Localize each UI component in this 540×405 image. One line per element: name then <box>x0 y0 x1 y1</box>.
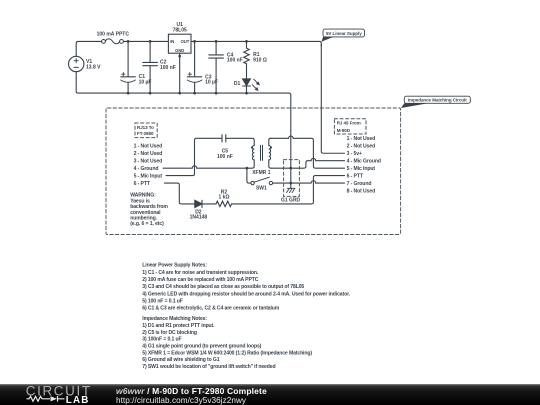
capacitor C5 <box>222 135 226 142</box>
label C5 <box>217 148 233 159</box>
LED D1 <box>243 79 260 93</box>
svg-text:1 - Not Used: 1 - Not Used <box>134 144 163 150</box>
svg-text:LAB: LAB <box>66 395 90 405</box>
svg-text:5) XFMR 1 = Edcor WSM 1/4 W 60: 5) XFMR 1 = Edcor WSM 1/4 W 600:2400 (1:… <box>142 350 312 356</box>
label C2 <box>160 60 176 71</box>
label U1 <box>170 22 190 53</box>
svg-text:2 - Not Used: 2 - Not Used <box>134 151 163 157</box>
RJ45 pin list text <box>347 136 381 194</box>
svg-text:3 - Not Used: 3 - Not Used <box>134 159 163 165</box>
wire RJ13 ground to transformer (with hop) <box>163 166 254 168</box>
junction U1 gnd pin <box>178 55 181 58</box>
wire D2 to R2 <box>202 203 216 205</box>
RJ13 To FT-2980 dashed label box <box>135 123 157 138</box>
capacitor C3 <box>187 41 202 93</box>
label fuse <box>97 31 130 37</box>
warning text <box>130 193 168 228</box>
svg-text:G1 GRD: G1 GRD <box>281 198 301 204</box>
wire secondary bottom to pin4 (jog up, hop over PTT vertical) <box>271 158 345 168</box>
Impedance Matching Circuit dashed box <box>106 108 401 235</box>
label G1 GRD <box>281 198 301 204</box>
svg-text:6) Ground all wire shielding t: 6) Ground all wire shielding to G1 <box>142 357 219 363</box>
svg-text:1 - Not Used: 1 - Not Used <box>347 136 376 142</box>
svg-text:100 nF: 100 nF <box>227 58 243 64</box>
svg-text:2) C5 is for DC blocking: 2) C5 is for DC blocking <box>142 330 197 336</box>
label V1 value <box>86 59 101 70</box>
svg-text:3) 100nF = 0.1 uF: 3) 100nF = 0.1 uF <box>142 337 181 343</box>
label XFMR 1 <box>252 170 271 176</box>
wire top rail right (U1 OUT to 5V corner) <box>191 41 321 46</box>
wire secondary top to pin5 (hop over ground drop, down, to Mic Input) <box>271 136 345 168</box>
label C1 <box>139 74 152 85</box>
svg-text:910 Ω: 910 Ω <box>253 57 267 63</box>
RJ13 pin list text <box>134 144 163 187</box>
node 5V flag wire <box>321 44 344 153</box>
ground G1 chassis symbol <box>287 188 295 192</box>
label R2 <box>219 189 230 200</box>
junction dots top rail <box>127 40 248 43</box>
svg-text:Impedance Matching Circuit: Impedance Matching Circuit <box>408 98 467 103</box>
wire ground drop from bottom rail <box>76 72 291 189</box>
svg-text:78L05: 78L05 <box>173 27 187 33</box>
svg-text:1) C1 - C4 are for noise and t: 1) C1 - C4 are for noise and transient s… <box>142 270 259 276</box>
wire RJ13 PTT down to diode row <box>164 183 194 204</box>
wire top rail mid (fuse to U1 IN) <box>123 40 168 42</box>
notes block 1 <box>142 263 350 312</box>
capacitor C1 <box>121 41 136 93</box>
svg-text:(e.g. 6 = 1, etc): (e.g. 6 = 1, etc) <box>130 221 164 227</box>
svg-text:1) D1 and R1 protect PTT input: 1) D1 and R1 protect PTT input. <box>142 323 215 329</box>
capacitor C4 <box>209 41 224 93</box>
junction dots bottom rail <box>127 92 248 95</box>
svg-text:6 - PTT: 6 - PTT <box>347 173 364 179</box>
capacitor C2 <box>143 41 158 93</box>
op-amp U1 78L05 regulator box <box>168 34 191 93</box>
label SW1 <box>256 186 267 192</box>
wire top rail left (V1 to fuse) <box>76 41 101 56</box>
svg-text:XFMR 1: XFMR 1 <box>252 170 271 176</box>
label D1 <box>234 81 241 87</box>
svg-text:M-90D: M-90D <box>337 128 351 133</box>
wire R2 to pin6 PTT <box>232 176 345 204</box>
svg-text:6 - PTT: 6 - PTT <box>134 181 151 187</box>
svg-text:4 - Ground: 4 - Ground <box>134 166 159 172</box>
svg-text:6) C1 & C3 are electrolytic, C: 6) C1 & C3 are electrolytic, C2 & C4 are… <box>142 306 279 312</box>
svg-text:7) SW1 would be location of "g: 7) SW1 would be location of "ground lift… <box>142 364 275 370</box>
svg-text:4) Generic LED with dropping r: 4) Generic LED with dropping resistor sh… <box>142 291 350 297</box>
svg-text:7 - Ground: 7 - Ground <box>347 181 372 187</box>
wire RJ13 mic input up to C5 <box>166 138 222 175</box>
svg-text:1N4148: 1N4148 <box>190 215 208 221</box>
svg-text:RJ 45 From: RJ 45 From <box>337 121 361 126</box>
svg-text:D1: D1 <box>234 81 241 87</box>
svg-text:13.8 V: 13.8 V <box>86 64 101 70</box>
svg-text:RJ13 To: RJ13 To <box>137 125 154 130</box>
svg-text:2) 100 mA fuse can be replaced: 2) 100 mA fuse can be replaced with 100 … <box>142 277 258 283</box>
junction dots impedance section <box>246 167 293 185</box>
node 5V Linear Supply flag <box>321 29 364 42</box>
svg-text:Impedance Matching Notes:: Impedance Matching Notes: <box>142 316 207 322</box>
switch SW1 <box>251 177 273 185</box>
svg-text:100 mA PPTC: 100 mA PPTC <box>97 31 130 37</box>
label C3 <box>205 74 218 85</box>
RJ 45 From M-90D dashed label box <box>334 119 366 134</box>
wire C5 to transformer primary <box>226 138 254 145</box>
diode D2 1N4148 <box>195 200 202 207</box>
transformer XFMR 1 <box>251 138 272 168</box>
svg-text:4 - Mic Ground: 4 - Mic Ground <box>347 159 381 165</box>
svg-text:5V Linear Supply: 5V Linear Supply <box>326 31 362 36</box>
svg-text:OUT: OUT <box>181 39 190 44</box>
svg-text:FT-2980: FT-2980 <box>137 131 154 136</box>
svg-text:8 - Not Used: 8 - Not Used <box>347 188 376 194</box>
CircuitLab logo <box>0 384 112 405</box>
wire XFMR bottom junction to SW1 <box>247 168 251 183</box>
svg-text:3 - 5v+: 3 - 5v+ <box>347 151 362 157</box>
footer bar <box>0 384 540 405</box>
svg-text:GND: GND <box>175 48 184 53</box>
svg-text:IN: IN <box>170 39 174 44</box>
svg-text:100 nF: 100 nF <box>217 154 233 160</box>
svg-text:3) C3 and C4 should be placed: 3) C3 and C4 should be placed as close a… <box>142 284 304 290</box>
svg-text:5) 100 nF = 0.1 uF: 5) 100 nF = 0.1 uF <box>142 298 182 304</box>
svg-text:100 nF: 100 nF <box>160 65 176 71</box>
resistor R1 <box>244 41 249 79</box>
node Impedance Matching Circuit flag <box>401 96 470 108</box>
svg-text:4) G1 single point ground (to: 4) G1 single point ground (to prevent gr… <box>142 344 261 350</box>
svg-text:5 - Mic Input: 5 - Mic Input <box>134 173 163 179</box>
voltage source V1 <box>69 56 84 71</box>
label R1 <box>253 52 267 63</box>
notes block 2 <box>142 316 312 370</box>
wire SW1 right to pin7 (hop over PTT vertical) <box>273 181 345 183</box>
label D2 <box>190 209 208 220</box>
label C4 <box>227 52 243 63</box>
svg-text:1 kΩ: 1 kΩ <box>219 195 230 201</box>
svg-text:SW1: SW1 <box>256 186 267 192</box>
svg-text:Linear Power Supply Notes:: Linear Power Supply Notes: <box>142 263 207 269</box>
svg-text:5 - Mic Input: 5 - Mic Input <box>347 166 376 172</box>
resistor R2 <box>216 201 232 206</box>
G1 dashed box <box>284 160 300 197</box>
svg-text:2 - Not Used: 2 - Not Used <box>347 144 376 150</box>
fuse F1 100 mA PPTC <box>102 39 124 44</box>
